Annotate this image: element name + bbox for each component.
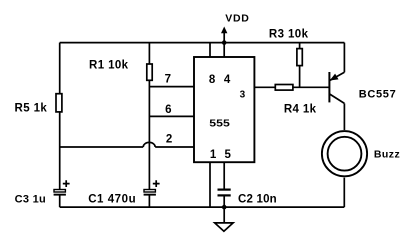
svg-text:6: 6 bbox=[165, 104, 171, 116]
svg-text:VDD: VDD bbox=[225, 13, 249, 25]
svg-text:2: 2 bbox=[166, 133, 172, 145]
svg-text:C3 1u: C3 1u bbox=[15, 193, 46, 205]
svg-text:8: 8 bbox=[209, 74, 216, 86]
svg-text:4: 4 bbox=[224, 74, 231, 86]
svg-text:R5 1k: R5 1k bbox=[15, 103, 48, 115]
svg-text:5: 5 bbox=[224, 149, 231, 161]
svg-text:7: 7 bbox=[165, 74, 171, 86]
svg-text:R4 1k: R4 1k bbox=[284, 103, 317, 115]
svg-text:BC557: BC557 bbox=[359, 88, 397, 100]
svg-text:R3 10k: R3 10k bbox=[269, 28, 309, 40]
svg-text:1: 1 bbox=[210, 149, 217, 161]
svg-text:C1 470u: C1 470u bbox=[88, 193, 136, 205]
svg-text:3: 3 bbox=[240, 89, 246, 100]
svg-text:555: 555 bbox=[209, 119, 230, 130]
svg-text:Buzz: Buzz bbox=[374, 149, 400, 161]
svg-text:C2 10n: C2 10n bbox=[238, 193, 277, 205]
svg-text:R1 10k: R1 10k bbox=[89, 59, 129, 71]
